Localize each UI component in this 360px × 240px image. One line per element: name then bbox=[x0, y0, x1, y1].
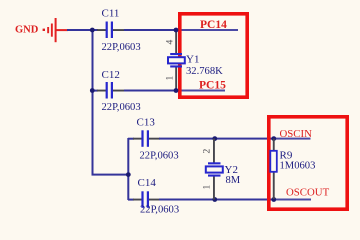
junction node (GND/C11/C12 branch) bbox=[90, 28, 95, 33]
ground GND power symbol bbox=[15, 18, 68, 42]
capacitor C11 bbox=[106, 22, 113, 39]
red highlight box PC14/PC15 bbox=[180, 14, 247, 97]
svg-text:OSCOUT: OSCOUT bbox=[286, 187, 330, 199]
crystal Y2 pin 2 wire bbox=[213, 139, 215, 164]
svg-text:2: 2 bbox=[203, 149, 213, 154]
svg-text:22P,0603: 22P,0603 bbox=[140, 151, 179, 162]
crystal Y2 pin 1 wire bbox=[213, 176, 215, 200]
svg-text:1: 1 bbox=[203, 185, 213, 190]
wire Y2 top to R9 top (OSCIN row) bbox=[214, 138, 274, 140]
resistor R9 bbox=[270, 151, 277, 172]
junction node (OSCOUT/R9 bottom) bbox=[271, 197, 276, 202]
wire C13 to Y2 pin2 node bbox=[159, 138, 215, 140]
wire C14 left pin bbox=[133, 199, 142, 201]
capacitor C14 bbox=[141, 191, 149, 208]
wire GND to C11 (row 1) bbox=[67, 29, 98, 31]
resistor R9 pin bottom wire bbox=[273, 172, 275, 199]
svg-text:C14: C14 bbox=[138, 177, 157, 189]
junction node (C11/Y1 pin4/PC14) bbox=[174, 28, 179, 33]
crystal Y1 bbox=[168, 53, 185, 68]
wire PC15 net stub bbox=[176, 90, 225, 92]
svg-text:OSCIN: OSCIN bbox=[280, 128, 313, 140]
junction node (C12 row branch) bbox=[90, 88, 95, 93]
wire C13 right pin bbox=[149, 138, 160, 140]
svg-text:1M0603: 1M0603 bbox=[280, 160, 316, 171]
svg-text:C11: C11 bbox=[102, 7, 120, 19]
crystal Y1 pin 4 wire bbox=[175, 30, 177, 54]
junction node (OSCIN/R9 top) bbox=[271, 136, 276, 141]
svg-text:Y1: Y1 bbox=[186, 53, 199, 65]
wire vertical C11-C12 branch bbox=[92, 30, 94, 91]
wire C14 right pin bbox=[149, 199, 160, 201]
capacitor C13 bbox=[141, 130, 149, 147]
svg-text:8M: 8M bbox=[226, 175, 241, 186]
wire OSCOUT net stub bbox=[274, 199, 311, 201]
wire Y2 bottom to R9 bottom (OSCOUT row) bbox=[214, 199, 275, 201]
svg-text:PC15: PC15 bbox=[199, 79, 226, 91]
wire OSCIN net stub bbox=[274, 138, 311, 140]
svg-text:C12: C12 bbox=[102, 69, 120, 81]
svg-text:22P,0603: 22P,0603 bbox=[102, 42, 141, 53]
resistor R9 pin top wire bbox=[273, 139, 275, 151]
wire C13 left pin bbox=[133, 138, 142, 140]
junction node (lower branch) bbox=[126, 172, 131, 177]
wire C14 to Y2 pin1 node bbox=[159, 199, 215, 201]
crystal Y1 pin 1 wire bbox=[175, 67, 177, 91]
wire C12 to Y1 pin1 node bbox=[124, 90, 176, 92]
svg-text:32.768K: 32.768K bbox=[186, 66, 223, 77]
wire C12 left pin bbox=[97, 90, 106, 92]
red highlight box OSCIN/OSCOUT bbox=[269, 117, 347, 209]
capacitor C12 bbox=[106, 82, 113, 99]
wire vertical lower branch up to C13 row bbox=[127, 138, 129, 175]
wire vertical lower branch down to C14 row bbox=[127, 175, 129, 200]
svg-text:4: 4 bbox=[166, 40, 176, 45]
wire C11 to Y1 pin4 node bbox=[124, 29, 176, 31]
junction node (C12/Y1 pin1/PC15) bbox=[174, 88, 179, 93]
svg-text:C13: C13 bbox=[137, 117, 156, 129]
wire horizontal to lower branch node bbox=[92, 174, 129, 176]
junction node (C13/Y2 pin2) bbox=[212, 136, 217, 141]
svg-text:PC14: PC14 bbox=[200, 19, 227, 31]
svg-text:22P,0603: 22P,0603 bbox=[102, 102, 141, 113]
wire C14 row left bbox=[128, 199, 134, 201]
wire C12 right pin bbox=[113, 90, 125, 92]
wire C13 row left bbox=[128, 138, 134, 140]
wire C12 row left bbox=[92, 90, 98, 92]
svg-text:22P,0603: 22P,0603 bbox=[140, 205, 179, 216]
wire PC14 net stub bbox=[176, 29, 238, 31]
svg-text:1: 1 bbox=[166, 76, 176, 81]
svg-text:GND: GND bbox=[15, 25, 39, 36]
wire C11 left pin bbox=[97, 29, 106, 31]
junction node (C14/Y2 pin1) bbox=[212, 197, 217, 202]
crystal Y2 bbox=[206, 162, 223, 176]
wire C11 right pin bbox=[113, 29, 125, 31]
wire vertical branch down from C12 row bbox=[92, 91, 94, 176]
